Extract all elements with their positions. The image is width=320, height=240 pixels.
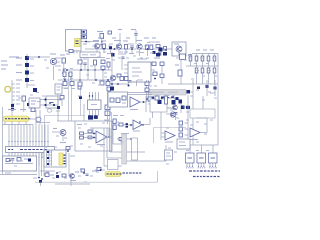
label	[176, 57, 179, 59]
node	[154, 78, 156, 80]
wire	[58, 99, 62, 101]
node F	[147, 48, 149, 50]
resistor R21	[31, 108, 35, 112]
label	[148, 103, 152, 105]
capacitor C10	[126, 123, 129, 125]
terminal pin	[12, 99, 15, 101]
wire	[154, 127, 186, 129]
label C4	[131, 29, 136, 31]
node O	[56, 172, 58, 174]
wire	[14, 125, 16, 142]
wire	[163, 48, 172, 50]
label	[66, 79, 69, 81]
wire	[104, 165, 122, 167]
wire	[35, 181, 158, 183]
wire	[84, 65, 86, 70]
diode D9	[33, 88, 37, 92]
capacitor C4	[134, 33, 137, 35]
diode D4	[159, 48, 163, 52]
wire	[118, 50, 120, 55]
node J	[49, 102, 51, 104]
wire	[11, 112, 13, 116]
label	[206, 63, 209, 65]
transistor Q4	[176, 46, 182, 52]
label	[5, 172, 11, 174]
label	[36, 92, 39, 94]
wire	[41, 125, 43, 142]
label	[190, 95, 193, 97]
wire	[121, 56, 123, 70]
resistor R30	[80, 132, 84, 135]
wire	[44, 153, 46, 158]
wire	[214, 80, 216, 96]
label	[60, 142, 66, 144]
label	[166, 163, 169, 165]
wire	[80, 58, 82, 71]
filter box	[3, 156, 37, 171]
label	[203, 49, 207, 51]
label	[8, 152, 11, 154]
wire	[208, 73, 210, 84]
pad	[198, 166, 199, 167]
label	[37, 101, 41, 103]
terminal pin	[12, 83, 15, 85]
label Q6	[70, 180, 76, 182]
label Q5	[50, 53, 56, 55]
wire	[44, 142, 46, 147]
label	[55, 61, 60, 63]
diode D16	[47, 151, 49, 153]
label R3	[123, 40, 128, 42]
wire	[148, 80, 150, 102]
label	[196, 89, 199, 91]
component box	[29, 98, 40, 108]
node	[64, 79, 66, 81]
label	[204, 133, 207, 135]
wire	[38, 142, 40, 147]
wire	[68, 153, 70, 176]
resistor R50	[78, 82, 82, 86]
wire	[94, 70, 96, 80]
label C2	[66, 53, 70, 55]
wire	[186, 65, 218, 67]
connector J1 pin 2	[82, 35, 87, 39]
resistor R51	[100, 81, 104, 85]
terminal pin	[12, 95, 15, 97]
label	[92, 45, 95, 47]
wire	[135, 30, 137, 44]
label	[150, 52, 154, 54]
label	[24, 158, 28, 160]
IC U5 body	[88, 100, 102, 110]
label	[116, 121, 119, 123]
wire	[36, 122, 50, 124]
label D7	[16, 72, 22, 74]
wire	[55, 183, 90, 185]
label	[64, 177, 67, 179]
wire	[111, 52, 113, 86]
label	[206, 150, 209, 152]
wire	[183, 106, 186, 108]
diode D1	[109, 46, 112, 49]
label	[83, 58, 87, 60]
resistor R17	[213, 68, 216, 73]
wire	[127, 151, 145, 153]
wire	[202, 54, 204, 57]
node I	[63, 69, 65, 71]
label	[126, 37, 130, 39]
wire	[128, 94, 153, 96]
wire	[70, 179, 72, 186]
wire	[8, 125, 10, 142]
capacitor C8	[11, 158, 14, 160]
wire	[189, 145, 191, 153]
resistor R22	[17, 158, 21, 162]
wire	[101, 39, 103, 49]
resistor R43	[69, 72, 72, 77]
diode D35	[156, 53, 160, 57]
resistor R35	[113, 125, 116, 130]
label	[70, 68, 73, 70]
label	[121, 133, 129, 135]
label	[172, 95, 175, 97]
diode D24	[161, 97, 164, 100]
label	[46, 67, 49, 69]
label relay pin2	[64, 158, 66, 159]
node	[94, 69, 96, 71]
wire	[20, 153, 22, 158]
wire	[38, 125, 40, 142]
resistor R53	[107, 87, 111, 91]
pad	[215, 166, 216, 167]
resistor R41	[78, 60, 82, 64]
wire	[113, 143, 122, 145]
label	[1, 68, 6, 70]
label	[146, 57, 149, 59]
wire	[29, 142, 31, 147]
wire	[208, 61, 210, 66]
diode D26	[187, 90, 191, 94]
wire	[146, 80, 148, 102]
label	[196, 141, 199, 143]
label	[112, 59, 115, 61]
relay K2	[172, 100, 176, 105]
resistor R34	[113, 119, 116, 124]
component box	[150, 99, 167, 112]
resistor R62	[145, 88, 149, 92]
module pin	[191, 163, 193, 166]
diode D17	[47, 157, 49, 159]
wire	[89, 110, 91, 116]
wire	[157, 171, 159, 182]
enclosure	[75, 121, 112, 151]
connector pin	[46, 163, 52, 165]
node	[128, 85, 130, 87]
label	[50, 174, 54, 176]
wire	[168, 83, 188, 85]
label	[185, 122, 189, 124]
label	[104, 119, 109, 121]
component box	[132, 138, 138, 160]
label	[90, 127, 93, 129]
IC U10 pin	[151, 74, 155, 76]
wire	[214, 54, 216, 57]
wire	[109, 112, 111, 152]
diode D31	[181, 106, 185, 110]
wire	[160, 49, 162, 56]
label	[210, 119, 213, 121]
label	[60, 54, 65, 56]
diode D21	[94, 115, 98, 119]
resistor R65	[122, 96, 126, 100]
node	[87, 69, 89, 71]
resistor R6	[156, 45, 160, 48]
label	[188, 57, 191, 59]
wire	[35, 125, 37, 142]
wire	[32, 125, 34, 142]
module pin	[189, 163, 191, 166]
node A	[85, 41, 87, 43]
connector pin	[46, 154, 52, 156]
node R	[93, 133, 95, 135]
wire	[92, 128, 94, 134]
module pin	[186, 163, 188, 166]
resistor R56	[160, 62, 164, 66]
wire	[62, 87, 68, 89]
component box	[163, 98, 175, 108]
label	[133, 55, 136, 57]
highlight on U2 pin block	[75, 39, 81, 47]
wire	[208, 54, 210, 57]
wire	[87, 58, 89, 71]
wire	[102, 70, 104, 80]
resistor R63	[110, 98, 114, 102]
pad	[20, 141, 21, 142]
label	[175, 64, 179, 66]
pad	[32, 141, 33, 142]
wire	[17, 142, 19, 147]
node W	[130, 124, 132, 126]
resistor R33	[105, 111, 110, 116]
wire	[84, 137, 96, 139]
label	[157, 41, 160, 43]
wire	[87, 70, 89, 80]
highlight net MAINS	[3, 116, 29, 122]
wire	[58, 79, 112, 81]
diode D12	[11, 108, 14, 111]
label title line1	[189, 170, 192, 172]
wire	[107, 136, 112, 138]
label	[8, 109, 16, 111]
label	[80, 168, 84, 170]
label	[122, 102, 126, 104]
wire	[25, 122, 27, 125]
wire	[3, 124, 34, 126]
label	[113, 115, 118, 117]
resistor R1	[100, 34, 104, 39]
capacitor C9	[86, 173, 89, 175]
wire	[76, 50, 78, 54]
resistor R42	[63, 72, 66, 77]
pad	[192, 166, 193, 167]
resistor R11	[201, 56, 204, 61]
label	[144, 37, 149, 39]
wire	[111, 112, 113, 152]
wire	[196, 73, 198, 84]
wire	[14, 142, 16, 147]
pad	[41, 141, 42, 142]
resistor R70	[78, 86, 81, 89]
wire	[23, 142, 25, 147]
wire	[27, 56, 50, 58]
label	[98, 84, 101, 86]
wire	[51, 149, 65, 151]
pad	[20, 157, 21, 158]
label	[56, 135, 59, 137]
wire	[12, 160, 14, 163]
wire	[106, 128, 108, 158]
label pins	[198, 167, 199, 169]
label	[50, 102, 54, 104]
wire	[43, 152, 45, 176]
label	[58, 69, 61, 71]
diode D39	[79, 96, 82, 99]
resistor R9	[189, 56, 192, 61]
resistor R64	[116, 98, 120, 103]
label	[70, 78, 73, 80]
label	[77, 124, 82, 126]
label	[20, 109, 26, 111]
wire	[201, 145, 203, 153]
wire	[202, 73, 204, 84]
capacitor C5	[178, 70, 182, 76]
capacitor C1	[100, 43, 103, 45]
label	[52, 177, 55, 179]
diode D29	[214, 87, 217, 90]
label D8	[16, 79, 22, 81]
resistor R32	[105, 105, 110, 110]
resistor R10	[195, 56, 198, 61]
bus bar	[122, 134, 127, 164]
diode D15	[39, 180, 42, 183]
label net VCC	[9, 56, 19, 58]
label	[210, 49, 214, 51]
resistor R47	[107, 62, 110, 67]
wire	[98, 110, 100, 116]
pad	[201, 166, 202, 167]
connector J1 pin 1	[82, 30, 87, 34]
label	[8, 160, 11, 162]
label	[136, 51, 139, 53]
wire	[44, 125, 46, 142]
connector CN1	[36, 117, 41, 122]
label	[30, 72, 34, 74]
pad	[17, 157, 18, 158]
wire	[89, 92, 91, 100]
label net text	[123, 172, 126, 174]
node	[80, 69, 82, 71]
wire	[206, 80, 208, 96]
wire	[200, 132, 207, 134]
resistor R46	[101, 66, 105, 70]
wire	[103, 49, 105, 53]
resistor R59	[120, 77, 124, 81]
component box	[80, 52, 100, 58]
label	[154, 85, 157, 87]
diode D27	[197, 87, 200, 90]
wire	[93, 127, 109, 129]
pad	[11, 141, 12, 142]
diode D36	[163, 52, 167, 56]
wire	[40, 183, 42, 186]
module M1	[186, 153, 195, 163]
resistor R61	[145, 82, 149, 86]
label	[200, 57, 203, 59]
label C3	[129, 53, 134, 55]
wire	[61, 99, 63, 106]
diode D18	[47, 163, 49, 165]
resistor R20	[22, 96, 26, 101]
label	[208, 91, 211, 93]
label	[202, 75, 205, 77]
label	[112, 37, 116, 39]
terminal pin	[12, 87, 15, 89]
diode D34	[111, 53, 115, 57]
diode D2	[153, 51, 156, 54]
resistor R31	[80, 136, 84, 139]
label	[53, 128, 57, 130]
wire	[11, 125, 13, 142]
node E	[131, 48, 133, 50]
wire	[20, 125, 22, 142]
wire	[161, 132, 165, 134]
label	[78, 127, 81, 129]
module M2	[197, 153, 206, 163]
label relay pin4	[64, 163, 66, 164]
resistor R29	[88, 136, 92, 139]
transistor Q5	[50, 58, 56, 64]
label pins	[186, 167, 187, 169]
diode D30	[179, 100, 183, 104]
wire	[17, 153, 19, 158]
wire	[20, 158, 22, 166]
wire	[26, 142, 28, 147]
pad	[212, 166, 213, 167]
node U	[89, 95, 90, 96]
module pin	[200, 163, 202, 166]
transistor Q4 outline	[172, 42, 186, 56]
transistor Q8	[170, 112, 175, 117]
wire	[202, 96, 204, 118]
diode D25	[166, 97, 169, 100]
transistor Q2	[116, 44, 121, 49]
wire	[29, 118, 36, 120]
wire	[149, 118, 151, 125]
label	[152, 37, 156, 39]
wire	[94, 65, 96, 70]
node	[117, 83, 119, 85]
node Q	[100, 169, 102, 171]
node bus1	[44, 98, 46, 100]
highlight relay	[59, 153, 63, 165]
module pin	[209, 163, 211, 166]
wire	[217, 54, 219, 146]
wire	[188, 144, 218, 146]
wire	[44, 115, 85, 117]
node	[143, 101, 145, 103]
wire	[161, 78, 163, 84]
resistor R14	[195, 68, 198, 73]
